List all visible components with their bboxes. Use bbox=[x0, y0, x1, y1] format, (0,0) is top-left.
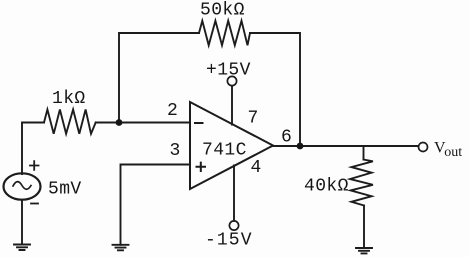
svg-text:+15V: +15V bbox=[206, 61, 251, 81]
svg-text:5mV: 5mV bbox=[48, 180, 82, 200]
wire: pin 3 to ground bbox=[121, 165, 191, 245]
wire: RL to ground bbox=[363, 206, 365, 249]
wire: op-amp output to Vout terminal bbox=[273, 145, 418, 147]
op-amp non-inverting input + symbol bbox=[197, 163, 206, 171]
wire: pin 7 to +15V terminal bbox=[231, 86, 233, 125]
node B junction dot (output node) bbox=[297, 143, 304, 150]
svg-text:741C: 741C bbox=[202, 141, 247, 161]
-15V terminal circle bbox=[229, 221, 238, 230]
svg-text:out: out bbox=[444, 145, 462, 160]
sine symbol inside source bbox=[13, 182, 31, 190]
resistor RL 40kOhm vertical zigzag bbox=[350, 160, 373, 206]
+15V terminal circle bbox=[227, 76, 236, 85]
svg-text:2: 2 bbox=[167, 101, 178, 121]
wire: pin 4 to -15V terminal bbox=[233, 165, 235, 220]
ground below RL bbox=[356, 248, 372, 253]
svg-text:4: 4 bbox=[251, 158, 262, 178]
op-amp inverting input - symbol bbox=[195, 122, 203, 124]
Vout terminal circle bbox=[419, 143, 428, 152]
voltage source VS 5mV bbox=[4, 173, 41, 199]
svg-text:6: 6 bbox=[281, 128, 292, 148]
wire: feedback up and across bbox=[119, 33, 199, 123]
source + polarity mark bbox=[30, 161, 39, 170]
svg-text:3: 3 bbox=[170, 141, 181, 161]
wire: R1 to op-amp pin 2 bbox=[96, 122, 190, 124]
source - polarity mark bbox=[31, 203, 38, 205]
ground below source bbox=[14, 245, 30, 251]
wire: source bottom to ground bbox=[21, 200, 23, 245]
resistor R1 1kOhm zigzag bbox=[44, 110, 96, 134]
op-amp U1 741C triangle bbox=[190, 102, 273, 189]
resistor RF 50kOhm zigzag bbox=[199, 21, 250, 46]
svg-text:1kΩ: 1kΩ bbox=[52, 89, 86, 109]
wire: RF to right corner down to output node bbox=[250, 33, 300, 146]
svg-text:-15V: -15V bbox=[205, 231, 253, 251]
wire: output node down to RL bbox=[363, 146, 365, 160]
ground below pin 3 bbox=[113, 245, 129, 251]
svg-text:7: 7 bbox=[248, 109, 259, 129]
svg-text:50kΩ: 50kΩ bbox=[200, 1, 245, 21]
wire: source top to input node bbox=[22, 123, 44, 175]
node A junction dot (input summing node) bbox=[116, 119, 123, 126]
svg-text:40kΩ: 40kΩ bbox=[304, 177, 349, 197]
